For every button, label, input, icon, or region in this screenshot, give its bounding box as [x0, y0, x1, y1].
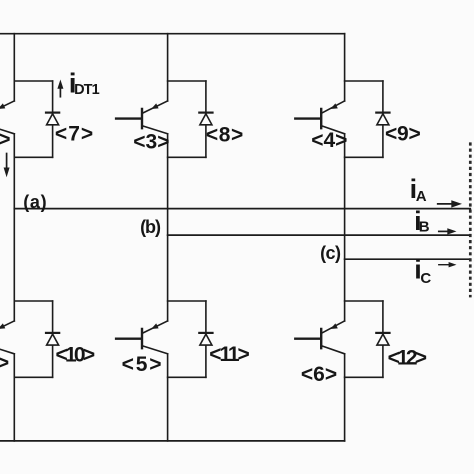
wire: phase-C leg vertical segments — [344, 34, 346, 441]
transistor T2 (partially cut off at left edge, bottom row) — [0, 321, 14, 354]
wire: phase output line (b) — [168, 234, 471, 236]
svg-text:(b): (b) — [140, 217, 161, 237]
diode D8 — [199, 81, 212, 157]
svg-text:<7>: <7> — [55, 123, 93, 146]
wire: phase output line (c) — [345, 258, 471, 260]
svg-text:<5>: <5> — [122, 353, 162, 376]
diode D11 — [199, 301, 212, 377]
diode D7 (freewheel, top-left) — [46, 81, 59, 157]
svg-text:>: > — [0, 352, 9, 375]
wire: phase-B leg vertical segments — [167, 34, 169, 441]
transistor Q6 — [295, 321, 344, 354]
diode D10 — [46, 301, 59, 377]
wire: phase output line (a) — [14, 208, 470, 210]
wire: D9 loop — [345, 81, 383, 157]
transistor Q4 — [295, 101, 344, 134]
svg-text:(a): (a) — [23, 192, 46, 212]
arrow: i_B — [439, 228, 457, 234]
load boundary dashed line — [469, 142, 472, 297]
svg-text:<3>: <3> — [133, 130, 169, 153]
diode D12 — [376, 301, 389, 377]
arrow: i_DT1 current (up) — [57, 80, 63, 97]
arrow: i_A — [438, 200, 462, 207]
wire: D12 loop — [345, 301, 383, 377]
svg-text:(c): (c) — [320, 243, 341, 263]
wire: phase-A leg vertical segments — [13, 34, 15, 441]
svg-text:<8>: <8> — [206, 124, 243, 147]
wire: negative DC bus (bottom rail) — [0, 440, 345, 442]
diode D9 — [376, 81, 389, 157]
transistor Q5 — [116, 321, 168, 354]
svg-text:<6>: <6> — [301, 363, 337, 386]
wire: positive DC bus (top rail) — [0, 33, 345, 35]
arrow: i_C — [439, 262, 457, 267]
transistor Q3 — [116, 101, 168, 134]
arrow: leg current (down, left edge) — [4, 154, 10, 178]
wire: D7 loop — [14, 81, 52, 157]
wire: D10 loop — [14, 301, 52, 377]
svg-text:<10>: <10> — [56, 344, 96, 367]
transistor T1 (partially cut off at left edge) — [0, 101, 14, 134]
svg-text:<11>: <11> — [209, 343, 250, 366]
wire: D11 loop — [168, 301, 206, 377]
svg-text:>: > — [0, 128, 10, 151]
svg-text:<12>: <12> — [388, 347, 427, 370]
wire: D8 loop — [168, 81, 206, 157]
svg-text:<4>: <4> — [311, 129, 347, 152]
svg-text:<9>: <9> — [385, 123, 421, 146]
